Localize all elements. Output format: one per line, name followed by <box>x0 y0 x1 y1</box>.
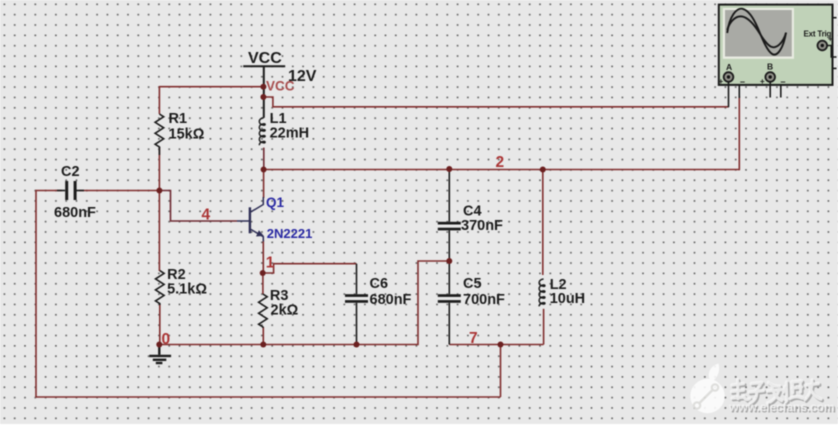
svg-text:B: B <box>767 61 773 71</box>
wire net 2 collector riser <box>263 170 265 199</box>
svg-text:10uH: 10uH <box>550 291 585 307</box>
svg-text:700nF: 700nF <box>463 292 505 308</box>
svg-text:A: A <box>726 62 732 72</box>
transistor Q1 emitter arrow <box>256 230 264 236</box>
svg-text:2: 2 <box>496 154 505 171</box>
watermark brand characters shadow <box>733 381 823 405</box>
junction VCC stem upper <box>260 84 266 90</box>
watermark logo circle <box>690 364 724 414</box>
oscilloscope trace A <box>727 9 786 55</box>
svg-text:22mH: 22mH <box>270 126 310 142</box>
svg-text:2kΩ: 2kΩ <box>271 303 299 319</box>
capacitor C6 top lead <box>356 264 358 295</box>
wire net VCC horizontal R1-top to VCC stem <box>159 86 263 88</box>
capacitor C5 <box>438 294 461 303</box>
capacitor C6 bottom lead <box>356 303 358 345</box>
inductor L2 <box>539 279 545 306</box>
inductor L2 bottom lead <box>543 309 545 345</box>
svg-text:370nF: 370nF <box>461 218 503 234</box>
capacitor C5 bottom lead <box>448 303 450 345</box>
transistor Q1 symbol <box>237 197 263 242</box>
svg-text:+: + <box>828 35 833 44</box>
oscilloscope A terminal <box>724 72 734 82</box>
wire net 0 ground bus <box>159 261 449 345</box>
oscilloscope A+ pin stub <box>728 82 730 107</box>
wire net 2 L2 top lead <box>542 170 544 276</box>
svg-text:C2: C2 <box>61 164 80 180</box>
wire net 7 riser to bottom return <box>500 345 502 398</box>
wire net 7 bottom return run <box>36 191 501 398</box>
svg-text:680nF: 680nF <box>54 205 96 221</box>
wire net 2 scope A- riser <box>738 96 740 170</box>
wire net 0 C2-R1-R2 vertical <box>158 148 160 272</box>
svg-text:15kΩ: 15kΩ <box>169 126 205 142</box>
wire net 1 emitter to junction <box>262 240 264 273</box>
svg-text:C5: C5 <box>463 276 482 292</box>
ground symbol (node 0) <box>149 345 171 364</box>
capacitor C6 <box>345 294 368 303</box>
oscilloscope right edge pin stub upper <box>833 17 837 19</box>
oscilloscope B+ pin stub <box>769 82 771 98</box>
wire net 7 bus C5 to L2 <box>449 344 543 346</box>
resistor R2 <box>156 271 165 305</box>
svg-text:VCC: VCC <box>266 79 295 94</box>
resistor R3 <box>259 294 268 328</box>
oscilloscope Ext Trig terminal <box>818 41 828 51</box>
oscilloscope A- pin stub <box>738 85 740 98</box>
junction node 7 riser <box>498 342 504 348</box>
svg-text:–: – <box>740 77 745 87</box>
wire net 4 from C2 junction to base <box>159 191 237 222</box>
oscilloscope screen frame <box>723 8 794 59</box>
junction C2-R1-R2 <box>156 188 162 194</box>
wire net 0 R3 bottom lead <box>262 327 264 345</box>
oscilloscope trace B <box>727 16 786 47</box>
wire net 1 jog to C6 <box>263 264 357 273</box>
svg-text:2N2221: 2N2221 <box>267 226 313 241</box>
oscilloscope XSC1 body <box>719 5 833 85</box>
oscilloscope B- pin stub <box>780 85 782 98</box>
oscilloscope Ext Trig lead <box>827 46 837 58</box>
oscilloscope B terminal <box>765 72 775 82</box>
svg-text:0: 0 <box>162 331 171 348</box>
junction R3 bottom <box>260 342 266 348</box>
svg-text:680nF: 680nF <box>370 292 412 308</box>
svg-text:4: 4 <box>202 207 211 224</box>
capacitor C4 bottom lead <box>448 230 450 261</box>
wire net VCC vertical down to R1 <box>158 86 160 114</box>
junction node 2 left <box>261 167 267 173</box>
oscilloscope right edge pin stub lower <box>833 67 837 69</box>
capacitor C2 right lead <box>77 190 84 192</box>
svg-text:R1: R1 <box>169 111 188 127</box>
power symbol VCC <box>243 66 285 118</box>
junction VCC stem lower <box>260 94 266 100</box>
svg-text:C6: C6 <box>370 276 389 292</box>
wire net 0 R2 bottom lead <box>159 304 161 345</box>
svg-text:www.elecfans.com: www.elecfans.com <box>728 400 835 414</box>
junction L2 top <box>540 167 546 173</box>
junction node 1 emitter <box>260 270 266 276</box>
wire net 2 horizontal main run <box>264 169 740 171</box>
resistor R1 <box>155 114 164 148</box>
wire C2 right lead to junction <box>79 190 159 192</box>
capacitor C2 <box>65 181 76 200</box>
inductor L1 <box>259 118 265 145</box>
junction C4 top <box>446 166 452 172</box>
wire net VCC jog from stem to long run <box>264 97 729 107</box>
svg-text:+: + <box>760 77 765 86</box>
svg-text:1: 1 <box>266 255 275 272</box>
capacitor C5 top lead <box>448 261 450 294</box>
junction ground node 0 <box>156 342 162 348</box>
svg-text:Q1: Q1 <box>266 195 285 210</box>
svg-text:+: + <box>719 77 724 86</box>
capacitor C4 top lead <box>448 169 450 222</box>
junction C4-C5 midpoint <box>446 258 452 264</box>
oscilloscope screen <box>725 10 792 57</box>
svg-text:5.1kΩ: 5.1kΩ <box>167 282 207 298</box>
capacitor C2 left lead <box>57 190 65 192</box>
watermark brand characters <box>731 380 821 404</box>
junction C6 bottom <box>354 342 360 348</box>
resistor R1 bottom lead <box>158 147 160 155</box>
wire net 1 R3 top lead <box>262 273 264 294</box>
capacitor C4 <box>438 222 461 231</box>
svg-text:VCC: VCC <box>248 50 282 67</box>
svg-text:7: 7 <box>469 330 478 347</box>
svg-text:L1: L1 <box>270 111 287 127</box>
inductor L1 bottom lead <box>263 148 265 170</box>
